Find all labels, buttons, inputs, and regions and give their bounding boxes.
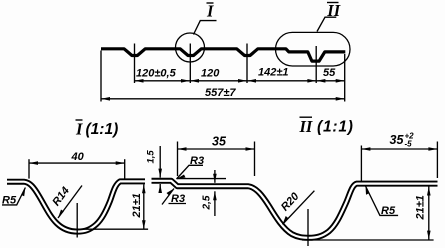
- svg-text:1,5: 1,5: [146, 150, 157, 164]
- node stadium detail II callout: [276, 32, 351, 66]
- svg-text:I: I: [75, 120, 83, 139]
- svg-text:R3: R3: [171, 193, 185, 205]
- detail I centerline: [76, 203, 78, 238]
- svg-text:R5: R5: [381, 205, 396, 217]
- dim 35 middle: [178, 148, 255, 150]
- svg-text:I: I: [206, 2, 214, 21]
- detail II bottom reference line: [302, 239, 434, 241]
- leader R20: [283, 191, 315, 225]
- dim 21±1 detail II: [428, 187, 430, 240]
- svg-text:2,5: 2,5: [202, 195, 213, 210]
- detail II centerline: [307, 209, 309, 246]
- leader R5 detail II: [366, 186, 399, 215]
- detail I bottom reference line: [75, 228, 148, 230]
- detail I sheet profile: [7, 181, 145, 231]
- svg-text:21±1: 21±1: [414, 195, 426, 220]
- svg-text:120: 120: [201, 68, 220, 80]
- node circle detail I callout: [176, 33, 205, 62]
- svg-text:55: 55: [323, 67, 336, 79]
- label II leader: [317, 17, 336, 31]
- svg-text:(1:1): (1:1): [317, 119, 354, 136]
- dim 21±1 detail I: [143, 184, 145, 229]
- dim 35 +2 -5: [361, 148, 437, 150]
- extension line right end: [344, 54, 346, 102]
- dim 1,5: [159, 146, 161, 178]
- leader R5 detail I: [2, 188, 25, 205]
- centerline notch 1: [134, 44, 136, 84]
- svg-text:142±1: 142±1: [258, 67, 289, 79]
- svg-text:(1:1): (1:1): [86, 121, 119, 138]
- dim 2,5: [214, 170, 216, 183]
- svg-text:120±0,5: 120±0,5: [136, 68, 177, 80]
- centerline notch 3: [246, 44, 248, 84]
- svg-text:21±1: 21±1: [131, 193, 143, 218]
- leader R14: [58, 186, 82, 219]
- leader R3 top: [177, 165, 204, 179]
- svg-text:35: 35: [390, 133, 405, 147]
- svg-text:557±7: 557±7: [205, 87, 236, 99]
- svg-text:R3: R3: [190, 155, 204, 167]
- dimension row 1 line: [135, 80, 345, 82]
- svg-text:-5: -5: [405, 140, 413, 149]
- centerline notch 2: [189, 44, 191, 84]
- label I leader: [194, 21, 217, 35]
- svg-text:35: 35: [212, 135, 227, 149]
- leader R3 bottom: [162, 189, 174, 205]
- detail II sheet profile: [152, 181, 438, 238]
- dimension row 2 line 557±7: [101, 98, 345, 100]
- svg-text:40: 40: [71, 151, 85, 163]
- extension line left end: [100, 51, 102, 102]
- upper surface extension line: [177, 178, 226, 180]
- wire profile outline (top view): [101, 49, 345, 61]
- dim 40: [29, 162, 125, 164]
- centerline notch 4: [315, 46, 317, 83]
- svg-text:II: II: [326, 1, 340, 20]
- svg-text:II: II: [299, 117, 313, 136]
- dim arrows row 1: [135, 79, 144, 83]
- svg-text:R5: R5: [2, 195, 17, 207]
